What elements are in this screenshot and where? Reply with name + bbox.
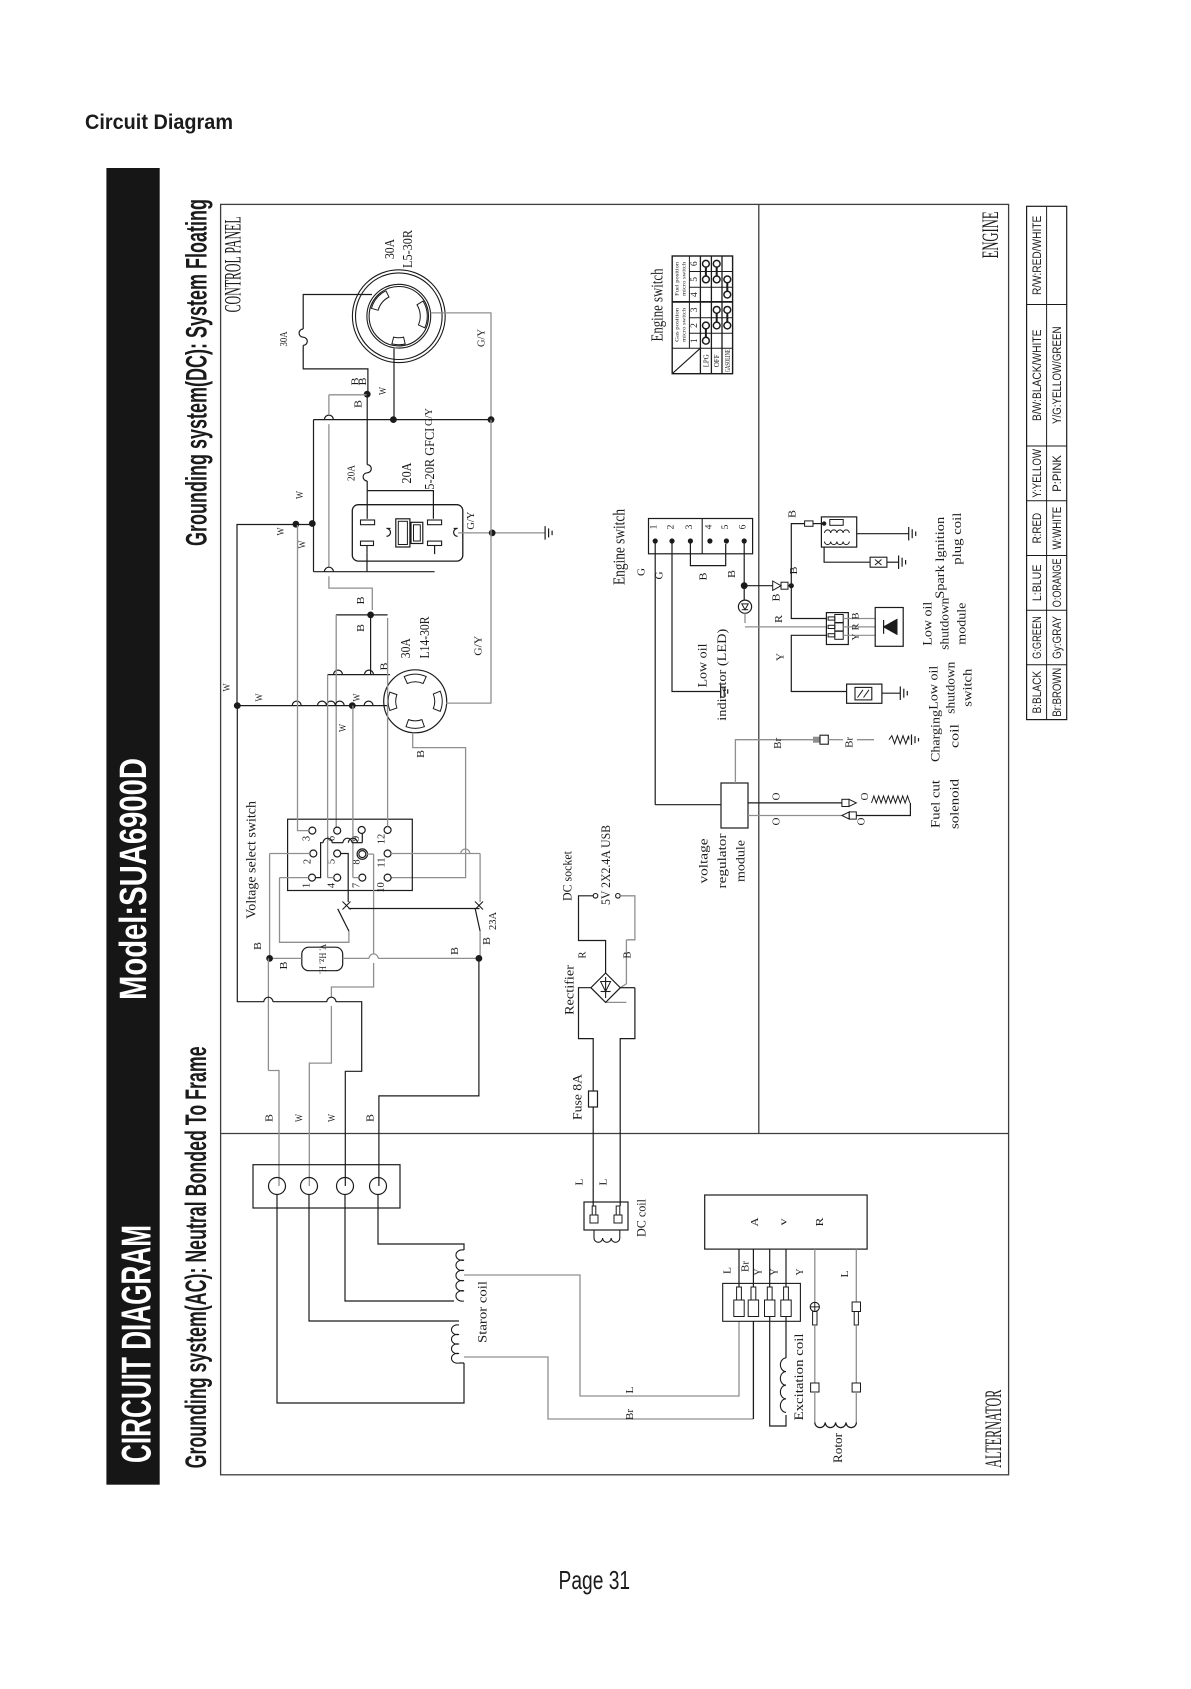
svg-text:Page 31: Page 31 — [559, 1565, 631, 1595]
svg-text:R:RED: R:RED — [1030, 513, 1044, 544]
svg-text:W: W — [255, 693, 266, 701]
svg-text:1: 1 — [690, 338, 700, 343]
svg-text:W: W — [295, 1114, 306, 1122]
svg-text:L14-30R: L14-30R — [418, 616, 433, 659]
svg-text:5V 2X2.4A USB: 5V 2X2.4A USB — [598, 825, 613, 905]
svg-text:7: 7 — [352, 883, 363, 888]
svg-text:Fuel position: Fuel position — [674, 262, 680, 296]
svg-text:B: B — [698, 572, 709, 580]
svg-text:ALTERNATOR: ALTERNATOR — [981, 1389, 1006, 1467]
svg-text:W: W — [352, 693, 363, 701]
svg-text:30A: 30A — [399, 637, 414, 658]
svg-text:LPG: LPG — [701, 354, 710, 368]
svg-text:GASOLINE: GASOLINE — [723, 349, 732, 372]
svg-text:W: W — [378, 387, 389, 395]
svg-text:2: 2 — [303, 859, 314, 864]
svg-text:Spark lgnition: Spark lgnition — [932, 516, 947, 599]
svg-text:Y: Y — [770, 1269, 781, 1276]
svg-text:Y: Y — [753, 1269, 764, 1276]
svg-text:G/Y: G/Y — [424, 408, 435, 426]
svg-text:G/Y: G/Y — [477, 329, 488, 347]
svg-text:micro switch: micro switch — [681, 308, 687, 342]
svg-text:1: 1 — [650, 524, 660, 529]
svg-text:CIRCUIT DIAGRAM: CIRCUIT DIAGRAM — [113, 1225, 160, 1463]
svg-text:L:BLUE: L:BLUE — [1030, 565, 1044, 602]
svg-text:DC coil: DC coil — [634, 1199, 649, 1237]
svg-text:module: module — [954, 602, 969, 644]
svg-text:Voltage select switch: Voltage select switch — [245, 801, 260, 919]
svg-text:B: B — [279, 961, 290, 969]
svg-text:Rotor: Rotor — [830, 1432, 845, 1463]
svg-text:O: O — [772, 793, 783, 801]
svg-text:4: 4 — [327, 882, 338, 888]
svg-text:W: W — [327, 1114, 338, 1122]
svg-text:Excitation coil: Excitation coil — [791, 1333, 806, 1420]
svg-text:Y: Y — [776, 653, 787, 661]
svg-text:5-20R GFCI: 5-20R GFCI — [423, 427, 438, 489]
svg-text:W: W — [222, 683, 233, 691]
svg-text:W: W — [298, 540, 309, 548]
svg-text:L: L — [625, 1387, 636, 1394]
svg-text:3: 3 — [302, 836, 313, 841]
svg-text:OFF: OFF — [712, 354, 721, 367]
svg-text:L: L — [723, 1267, 734, 1274]
svg-text:R: R — [774, 615, 785, 623]
svg-text:11: 11 — [377, 857, 388, 867]
svg-text:W: W — [295, 491, 306, 499]
svg-text:B/W:BLACK/WHITE: B/W:BLACK/WHITE — [1030, 330, 1044, 422]
svg-text:switch: switch — [960, 668, 975, 707]
svg-text:B: B — [789, 566, 800, 574]
svg-text:O: O — [772, 818, 783, 826]
svg-text:3: 3 — [685, 524, 695, 529]
svg-text:R: R — [814, 1217, 826, 1227]
svg-text:P:PINK: P:PINK — [1050, 454, 1064, 491]
svg-text:voltage: voltage — [696, 838, 711, 883]
svg-text:module: module — [733, 840, 748, 882]
svg-text:plug coil: plug coil — [949, 512, 964, 564]
svg-text:W:WHITE: W:WHITE — [1050, 507, 1064, 550]
svg-text:B: B — [450, 947, 461, 955]
svg-text:G/Y: G/Y — [473, 636, 484, 656]
svg-text:Fuse 8A: Fuse 8A — [570, 1073, 585, 1120]
svg-text:B: B — [253, 942, 264, 950]
svg-text:Gy:GRAY: Gy:GRAY — [1050, 616, 1064, 659]
svg-text:Br: Br — [741, 1260, 752, 1272]
svg-text:B: B — [380, 662, 391, 670]
svg-text:v: v — [779, 1219, 790, 1226]
svg-text:B: B — [353, 400, 364, 408]
svg-text:Rectifier: Rectifier — [562, 964, 577, 1015]
svg-text:micro switch: micro switch — [681, 262, 687, 296]
svg-text:B: B — [366, 1114, 377, 1122]
svg-text:5: 5 — [690, 277, 700, 282]
svg-text:3: 3 — [690, 307, 700, 312]
svg-text:W: W — [276, 527, 287, 535]
svg-text:4: 4 — [704, 524, 714, 529]
svg-text:shutdown: shutdown — [937, 597, 952, 650]
svg-text:Engine switch: Engine switch — [610, 509, 629, 585]
svg-text:R: R — [578, 951, 589, 958]
svg-text:Grounding system(DC): System F: Grounding system(DC): System Floating — [181, 199, 214, 546]
svg-text:Circuit Diagram: Circuit Diagram — [85, 110, 233, 134]
svg-text:B: B — [265, 1114, 276, 1122]
svg-text:shutdown: shutdown — [943, 661, 958, 714]
svg-text:Grounding system(AC): Neutral: Grounding system(AC): Neutral Bonded To … — [180, 1046, 213, 1468]
svg-text:ENGINE: ENGINE — [978, 211, 1003, 258]
svg-text:4: 4 — [690, 292, 700, 297]
svg-text:Fuel cut: Fuel cut — [928, 780, 943, 828]
svg-text:O: O — [860, 793, 871, 801]
svg-text:B: B — [416, 750, 427, 758]
svg-text:R: R — [852, 623, 862, 631]
svg-text:10: 10 — [376, 882, 387, 893]
svg-text:G/Y: G/Y — [466, 512, 477, 530]
svg-text:6: 6 — [739, 524, 749, 529]
svg-text:Gas position: Gas position — [674, 308, 680, 342]
svg-text:B: B — [358, 377, 369, 385]
svg-text:Br: Br — [845, 736, 856, 748]
svg-text:Model:SUA6900D: Model:SUA6900D — [113, 758, 155, 1000]
svg-text:coil: coil — [947, 724, 962, 748]
svg-text:G: G — [655, 572, 666, 580]
svg-text:B: B — [727, 570, 738, 578]
svg-text:Engine switch: Engine switch — [648, 268, 667, 341]
svg-text:solenoid: solenoid — [947, 778, 962, 829]
svg-text:2: 2 — [667, 524, 677, 529]
svg-text:B: B — [623, 951, 634, 958]
svg-text:30A: 30A — [383, 238, 398, 259]
svg-text:Br: Br — [625, 1408, 636, 1420]
svg-text:Charging: Charging — [928, 709, 943, 762]
svg-text:CONTROL PANEL: CONTROL PANEL — [220, 216, 245, 312]
svg-text:regulator: regulator — [714, 833, 729, 889]
svg-text:Br: Br — [773, 737, 784, 749]
svg-text:B: B — [356, 624, 367, 632]
svg-text:L: L — [840, 1271, 851, 1278]
svg-text:DC socket: DC socket — [560, 851, 575, 901]
svg-text:L: L — [599, 1179, 610, 1186]
svg-text:L: L — [575, 1179, 586, 1186]
svg-text:B: B — [772, 593, 783, 601]
svg-text:Low oil: Low oil — [926, 665, 941, 709]
svg-text:L5-30R: L5-30R — [401, 229, 416, 268]
svg-text:A: A — [749, 1217, 761, 1226]
svg-text:R/W:RED/WHITE: R/W:RED/WHITE — [1030, 216, 1044, 295]
svg-text:O: O — [857, 818, 868, 826]
svg-text:G: G — [636, 568, 647, 576]
svg-text:G:GREEN: G:GREEN — [1030, 616, 1044, 659]
svg-text:B: B — [356, 596, 367, 604]
svg-text:30A: 30A — [279, 331, 290, 347]
svg-text:Y: Y — [795, 1269, 806, 1276]
svg-text:V. Hz. H.: V. Hz. H. — [317, 944, 327, 974]
svg-text:Y: Y — [852, 633, 862, 640]
svg-text:20A: 20A — [347, 464, 358, 481]
svg-text:Low oil: Low oil — [695, 643, 710, 687]
svg-text:20A: 20A — [400, 462, 415, 484]
svg-text:Y:YELLOW: Y:YELLOW — [1030, 449, 1044, 498]
svg-text:indicator (LED): indicator (LED) — [714, 629, 729, 721]
svg-text:23A: 23A — [488, 911, 499, 930]
svg-text:O:ORANGE: O:ORANGE — [1050, 559, 1064, 608]
svg-text:Low oil: Low oil — [920, 601, 935, 645]
svg-text:B: B — [482, 937, 493, 945]
svg-text:12: 12 — [377, 834, 388, 845]
svg-text:Br:BROWN: Br:BROWN — [1050, 668, 1064, 717]
svg-text:Y/G:YELLOW/GREEN: Y/G:YELLOW/GREEN — [1050, 326, 1064, 424]
svg-text:Staror coil: Staror coil — [475, 1281, 490, 1343]
svg-text:5: 5 — [721, 524, 731, 529]
svg-text:2: 2 — [690, 323, 700, 328]
svg-text:6: 6 — [690, 261, 700, 266]
svg-text:1: 1 — [302, 883, 313, 888]
svg-text:B: B — [852, 613, 862, 620]
svg-text:B: B — [787, 510, 798, 518]
svg-text:W: W — [338, 724, 349, 732]
svg-text:B:BLACK: B:BLACK — [1030, 670, 1044, 713]
